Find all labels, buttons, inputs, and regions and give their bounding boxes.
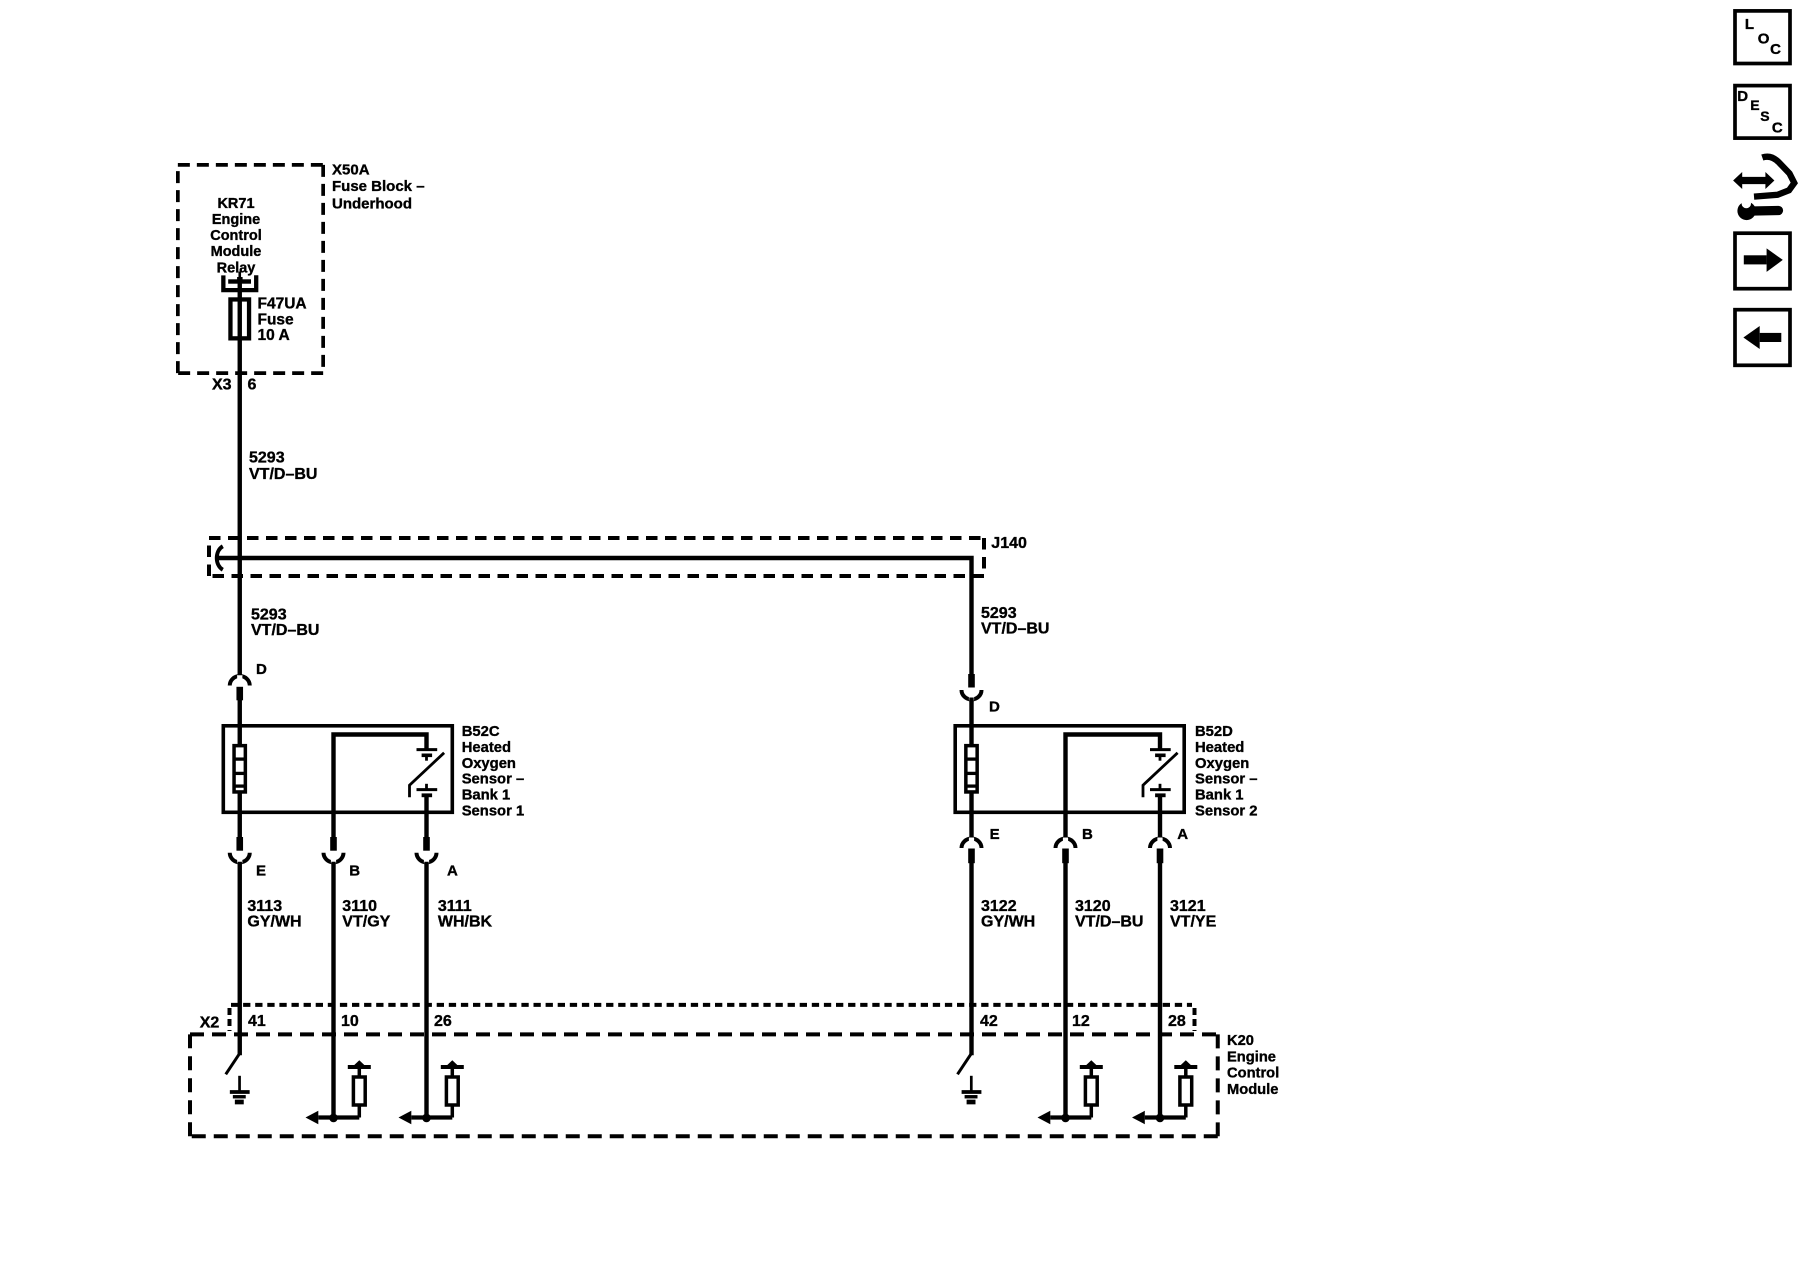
- svg-text:GY/WH: GY/WH: [247, 914, 301, 931]
- svg-text:41: 41: [248, 1013, 266, 1030]
- svg-text:Engine: Engine: [1227, 1049, 1276, 1065]
- svg-text:5293: 5293: [251, 606, 287, 623]
- svg-text:F47UA: F47UA: [258, 296, 307, 313]
- svg-text:Sensor 1: Sensor 1: [462, 804, 525, 820]
- svg-text:Module: Module: [211, 244, 262, 260]
- svg-text:VT/YE: VT/YE: [1170, 914, 1217, 931]
- svg-text:A: A: [447, 863, 458, 880]
- svg-text:D: D: [989, 699, 1000, 716]
- svg-text:Engine: Engine: [212, 212, 260, 228]
- svg-text:Module: Module: [1227, 1082, 1278, 1098]
- svg-text:Relay: Relay: [217, 260, 256, 276]
- svg-text:D: D: [256, 661, 267, 678]
- svg-text:L: L: [1745, 16, 1754, 33]
- svg-text:VT/D–BU: VT/D–BU: [1075, 914, 1143, 931]
- svg-text:3122: 3122: [981, 898, 1017, 915]
- svg-text:B: B: [1082, 826, 1093, 843]
- svg-text:Sensor –: Sensor –: [1195, 772, 1258, 788]
- svg-text:Bank 1: Bank 1: [462, 788, 511, 804]
- svg-text:VT/D–BU: VT/D–BU: [251, 622, 319, 639]
- svg-text:GY/WH: GY/WH: [981, 914, 1035, 931]
- svg-text:VT/GY: VT/GY: [342, 914, 390, 931]
- svg-text:Control: Control: [1227, 1066, 1279, 1082]
- svg-text:5293: 5293: [981, 605, 1017, 622]
- svg-text:Sensor 2: Sensor 2: [1195, 804, 1258, 820]
- svg-text:Oxygen: Oxygen: [462, 756, 516, 772]
- svg-text:10: 10: [341, 1013, 359, 1030]
- svg-text:26: 26: [434, 1013, 452, 1030]
- svg-text:VT/D–BU: VT/D–BU: [249, 466, 317, 483]
- svg-text:E: E: [1750, 97, 1759, 113]
- svg-text:Fuse Block –: Fuse Block –: [332, 178, 425, 195]
- svg-text:B52C: B52C: [462, 724, 500, 740]
- svg-text:J140: J140: [991, 535, 1027, 552]
- svg-text:3110: 3110: [342, 898, 377, 915]
- svg-text:Fuse: Fuse: [258, 311, 295, 328]
- svg-text:6: 6: [248, 376, 257, 393]
- svg-text:C: C: [1770, 41, 1781, 58]
- svg-text:X3: X3: [212, 376, 232, 393]
- svg-text:10 A: 10 A: [258, 327, 290, 344]
- svg-text:12: 12: [1072, 1013, 1090, 1030]
- svg-text:S: S: [1760, 108, 1769, 124]
- svg-text:5293: 5293: [249, 450, 285, 467]
- svg-text:Oxygen: Oxygen: [1195, 756, 1249, 772]
- svg-text:Bank 1: Bank 1: [1195, 788, 1244, 804]
- svg-text:K20: K20: [1227, 1033, 1254, 1049]
- svg-text:B: B: [349, 863, 360, 880]
- svg-text:E: E: [256, 863, 266, 880]
- svg-text:Control: Control: [210, 228, 262, 244]
- svg-text:B52D: B52D: [1195, 724, 1233, 740]
- svg-text:VT/D–BU: VT/D–BU: [981, 621, 1049, 638]
- svg-text:3120: 3120: [1075, 898, 1111, 915]
- svg-text:Sensor –: Sensor –: [462, 772, 525, 788]
- svg-text:KR71: KR71: [217, 196, 254, 212]
- svg-text:X2: X2: [200, 1014, 220, 1031]
- svg-text:A: A: [1177, 826, 1188, 843]
- svg-text:WH/BK: WH/BK: [438, 914, 493, 931]
- svg-text:3113: 3113: [247, 898, 282, 915]
- svg-text:3111: 3111: [438, 898, 472, 915]
- svg-text:Heated: Heated: [1195, 740, 1244, 756]
- svg-text:3121: 3121: [1170, 898, 1206, 915]
- svg-text:C: C: [1772, 120, 1783, 137]
- svg-text:28: 28: [1168, 1013, 1186, 1030]
- svg-text:Heated: Heated: [462, 740, 511, 756]
- svg-text:42: 42: [980, 1013, 998, 1030]
- svg-text:O: O: [1758, 30, 1770, 47]
- svg-text:D: D: [1737, 88, 1748, 105]
- svg-text:X50A: X50A: [332, 161, 370, 178]
- svg-text:E: E: [990, 826, 1000, 843]
- svg-text:Underhood: Underhood: [332, 195, 412, 212]
